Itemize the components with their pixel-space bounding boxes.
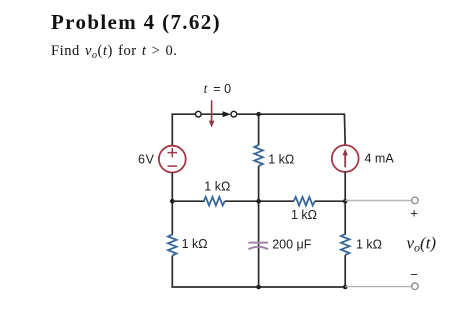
node middle-center junction bbox=[256, 199, 261, 204]
wire top-right segment bbox=[237, 113, 345, 115]
wire middle rail (R to mid node) bbox=[258, 166, 260, 201]
wire output bottom (gray) bbox=[345, 286, 411, 288]
svg-text:t = 0: t = 0 bbox=[204, 81, 231, 96]
svg-text:1 kΩ: 1 kΩ bbox=[291, 208, 317, 222]
wire left rail top (to V1) bbox=[171, 113, 173, 145]
wire middle-left segment bbox=[172, 200, 205, 202]
switch action arrow (t=0) bbox=[209, 100, 215, 127]
svg-text:200 μF: 200 μF bbox=[272, 237, 312, 251]
svg-text:1 kΩ: 1 kΩ bbox=[182, 237, 208, 251]
resistor 1k (middle-left horizontal) bbox=[204, 197, 225, 206]
wire middle-right segment bbox=[315, 200, 346, 202]
svg-text:vo(t): vo(t) bbox=[407, 233, 437, 254]
wire middle rail lower (mid node through capacitor to bottom) bbox=[258, 201, 260, 287]
node bottom-middle junction bbox=[256, 285, 261, 290]
svg-text:6V: 6V bbox=[138, 153, 155, 167]
wire left rail bottom bbox=[171, 256, 173, 287]
wire middle-center segment bbox=[225, 200, 294, 202]
resistor 1k (bottom-left vertical) bbox=[168, 235, 177, 256]
wire left rail middle (V1 to mid node) bbox=[171, 173, 173, 235]
resistor 1k (middle-right horizontal) bbox=[294, 197, 315, 206]
node top-middle junction bbox=[256, 112, 261, 117]
svg-text:4 mA: 4 mA bbox=[365, 152, 395, 166]
switch S1 right contact bbox=[231, 111, 237, 117]
node left-middle junction bbox=[170, 199, 175, 204]
resistor 1k (bottom-right vertical) bbox=[341, 234, 350, 255]
current source I1 4mA bbox=[332, 145, 359, 172]
svg-text:1 kΩ: 1 kΩ bbox=[204, 179, 230, 193]
capacitor C1 200uF bbox=[248, 243, 268, 250]
switch S1 left contact bbox=[196, 111, 202, 117]
svg-text:+: + bbox=[410, 206, 418, 221]
resistor 1k (middle-top vertical) bbox=[254, 145, 263, 166]
node middle-right junction bbox=[343, 199, 348, 204]
switch blade arrowhead bbox=[223, 111, 231, 117]
wire right rail top (corner to I1) bbox=[343, 113, 346, 145]
voltage source V1 6V bbox=[159, 146, 186, 173]
subtitle bbox=[51, 43, 177, 60]
wire top-left segment bbox=[172, 113, 195, 115]
terminal output + bbox=[412, 197, 419, 204]
wire output top (gray) bbox=[345, 200, 411, 202]
terminal output - bbox=[412, 283, 419, 290]
svg-text:1 kΩ: 1 kΩ bbox=[268, 153, 294, 167]
wire right rail bottom bbox=[344, 255, 346, 287]
svg-text:−: − bbox=[410, 267, 418, 282]
node bottom-right junction bbox=[343, 285, 348, 290]
wire right rail middle (I1 to mid node) bbox=[344, 172, 346, 235]
title bbox=[51, 10, 221, 35]
wire middle rail top (top node to R) bbox=[258, 113, 260, 145]
svg-text:1 kΩ: 1 kΩ bbox=[356, 237, 382, 251]
wire between switch contacts bbox=[201, 113, 223, 115]
wire bottom rail bbox=[171, 286, 345, 288]
